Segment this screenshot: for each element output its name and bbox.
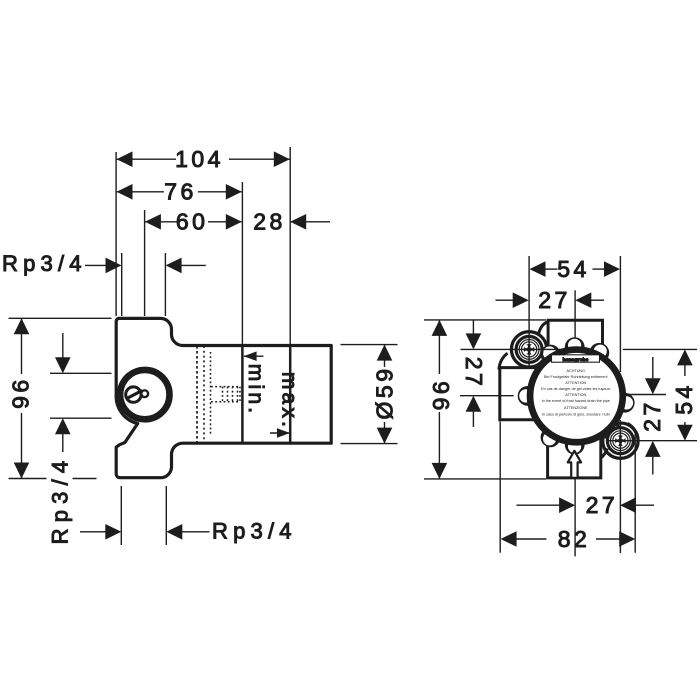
dimension 96 (left view) bbox=[14, 318, 30, 478]
svg-text:54: 54 bbox=[671, 382, 697, 415]
svg-text:Rp3/4: Rp3/4 bbox=[212, 519, 297, 544]
center line upper bbox=[574, 290, 576, 350]
svg-text:In caso di pericolo di gelo, s: In caso di pericolo di gelo, svuotare i … bbox=[542, 412, 610, 416]
centerline extension left bbox=[460, 395, 514, 397]
svg-text:96: 96 bbox=[8, 380, 34, 413]
valve body flange and cylinder outline bbox=[116, 318, 331, 477]
boss lever bar bbox=[126, 390, 142, 399]
svg-text:27: 27 bbox=[586, 492, 619, 518]
pad fillet upper right bbox=[628, 423, 636, 433]
warning text bbox=[541, 369, 610, 416]
cover ring bbox=[530, 350, 623, 443]
svg-text:104: 104 bbox=[175, 146, 224, 172]
82 extension lines bbox=[499, 422, 501, 553]
svg-text:76: 76 bbox=[164, 179, 197, 205]
hansgrohe label box bbox=[552, 355, 600, 362]
boss ring on flange bbox=[120, 370, 169, 419]
extension line through top-left screw (horizontal) bbox=[461, 348, 563, 350]
thread dotted line 1 bbox=[196, 346, 198, 442]
svg-text:En cas de danger de gel videz: En cas de danger de gel videz les tuyaux… bbox=[541, 387, 610, 391]
svg-text:82: 82 bbox=[558, 526, 591, 552]
svg-text:28: 28 bbox=[253, 209, 286, 235]
extension line x=121.7 (Rp3/4 top left) bbox=[121, 253, 123, 316]
pad fillet to top box bbox=[539, 322, 549, 334]
cylinder section divider (max line) bbox=[289, 346, 292, 442]
svg-text:In the event of frost hazard d: In the event of frost hazard drain the p… bbox=[542, 399, 610, 403]
spindle dotted outline bbox=[211, 352, 241, 436]
extension line x=144.6 (60 left) bbox=[144, 210, 146, 316]
extension line x=290 (104/28 right) bbox=[289, 147, 291, 344]
Rp3/4 left port dimension bbox=[50, 372, 112, 374]
min pointer arrow bbox=[244, 351, 264, 361]
Rp3/4 bottom dimension bbox=[120, 486, 122, 545]
svg-text:ACHTUNG: ACHTUNG bbox=[567, 369, 586, 373]
bottom port box bbox=[548, 438, 601, 478]
svg-text:Rp3/4: Rp3/4 bbox=[2, 251, 87, 276]
dimension 27 left of right view bbox=[466, 320, 482, 427]
svg-text:60: 60 bbox=[176, 209, 209, 235]
top port box bbox=[548, 320, 602, 352]
svg-text:Rp3/4: Rp3/4 bbox=[47, 455, 72, 545]
top-left screw pad bbox=[511, 332, 546, 367]
extension line x=242 (76/60 right) bbox=[241, 182, 243, 344]
cylinder section divider (min line) bbox=[241, 346, 244, 442]
extension line x=165.4 (Rp3/4 top right) bbox=[164, 253, 166, 316]
pad fillet to bottom box bbox=[601, 449, 608, 459]
svg-text:max.: max. bbox=[278, 372, 301, 430]
pad fillet to wing bbox=[499, 353, 508, 369]
svg-text:Bei Frostgefahr Rohrleitung en: Bei Frostgefahr Rohrleitung entleeren! bbox=[544, 375, 608, 379]
svg-text:96: 96 bbox=[428, 381, 454, 414]
max pointer arrow bbox=[270, 428, 290, 438]
centerline extension right bbox=[627, 394, 667, 396]
dimension 82 bbox=[501, 531, 636, 547]
thread dotted line 2 bbox=[203, 346, 205, 442]
left wing plate bbox=[500, 368, 543, 420]
extension line through top-left screw (vertical) bbox=[528, 256, 530, 367]
boss inner lever circle bbox=[126, 387, 141, 402]
cover ring eyelet bumps bbox=[518, 337, 635, 454]
O59 extension lines bbox=[341, 344, 398, 346]
96 right-view extension lines bbox=[424, 319, 546, 321]
top-left screw level extension to right bbox=[623, 348, 697, 350]
dimension 27 top bbox=[496, 292, 605, 308]
svg-text:hansgrohe: hansgrohe bbox=[563, 357, 589, 363]
flow direction arrow bbox=[568, 451, 581, 478]
dimension 54 right bbox=[677, 349, 693, 440]
extension line through bottom-right screw (vertical) bbox=[619, 256, 621, 372]
svg-text:ATTENTION: ATTENTION bbox=[565, 393, 586, 397]
extension line through bottom-right screw (horizontal) bbox=[608, 440, 697, 442]
dimension 54 top bbox=[530, 261, 621, 277]
svg-text:54: 54 bbox=[557, 256, 590, 282]
extension line x=116 (104/76 left) bbox=[115, 152, 117, 316]
cover ring eyelet holes bbox=[519, 339, 633, 453]
dimension 60 bbox=[145, 214, 242, 230]
dimension 27 right of right view bbox=[645, 357, 661, 475]
dimension 104 bbox=[117, 151, 290, 167]
dimension 96 (right view) bbox=[432, 320, 448, 479]
svg-text:27: 27 bbox=[538, 287, 571, 313]
center line lower bbox=[574, 478, 576, 557]
svg-text:ATTENZIONE: ATTENZIONE bbox=[564, 406, 588, 410]
svg-text:ATTENTION: ATTENTION bbox=[565, 381, 586, 385]
svg-text:min.: min. bbox=[244, 364, 267, 416]
dimension 27 bottom bbox=[517, 497, 655, 513]
dimension 76 bbox=[117, 184, 242, 200]
boss lever knob bbox=[141, 390, 148, 397]
bottom-right screw bbox=[607, 428, 633, 454]
top-left screw bbox=[516, 336, 542, 362]
svg-text:Ø59: Ø59 bbox=[372, 366, 398, 420]
svg-text:27: 27 bbox=[461, 357, 487, 390]
dimension O59 bbox=[377, 345, 393, 444]
96 extension bottom bbox=[9, 478, 47, 480]
bottom-right screw pad bbox=[603, 423, 638, 458]
96 extension top bbox=[9, 317, 112, 319]
svg-text:27: 27 bbox=[639, 399, 665, 432]
